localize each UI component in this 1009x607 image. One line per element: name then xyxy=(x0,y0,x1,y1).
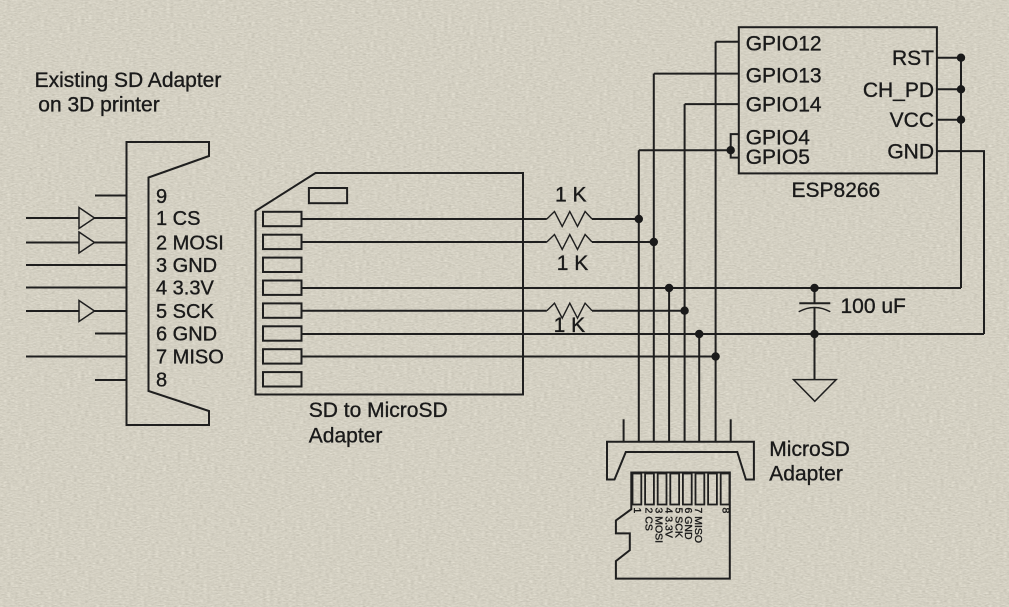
svg-text:8: 8 xyxy=(719,508,731,514)
svg-text:ESP8266: ESP8266 xyxy=(792,179,881,202)
svg-text:CH_PD: CH_PD xyxy=(863,79,934,102)
svg-text:SD to MicroSD: SD to MicroSD xyxy=(309,399,448,422)
svg-text:VCC: VCC xyxy=(890,109,934,132)
svg-text:1 K: 1 K xyxy=(555,184,587,207)
svg-text:5 SCK: 5 SCK xyxy=(156,301,214,323)
svg-text:7 MISO: 7 MISO xyxy=(156,347,224,369)
svg-text:1: 1 xyxy=(631,508,643,514)
svg-text:1 CS: 1 CS xyxy=(156,208,200,230)
svg-text:9: 9 xyxy=(156,186,167,208)
svg-text:3 MOSI: 3 MOSI xyxy=(652,508,664,544)
svg-text:Adapter: Adapter xyxy=(309,424,383,447)
svg-text:1 K: 1 K xyxy=(554,314,586,337)
svg-text:MicroSD: MicroSD xyxy=(769,438,850,461)
svg-text:1 K: 1 K xyxy=(557,252,589,275)
svg-text:Existing SD Adapter: Existing SD Adapter xyxy=(35,69,222,92)
svg-text:3 GND: 3 GND xyxy=(156,255,217,277)
svg-text:Adapter: Adapter xyxy=(769,463,843,486)
svg-text:6 GND: 6 GND xyxy=(156,324,217,346)
svg-text:2 MOSI: 2 MOSI xyxy=(156,233,224,255)
svg-text:GND: GND xyxy=(887,141,934,164)
svg-text:GPIO5: GPIO5 xyxy=(746,146,810,169)
svg-text:4 3.3V: 4 3.3V xyxy=(156,278,214,300)
svg-text:8: 8 xyxy=(156,370,167,392)
svg-text:on 3D printer: on 3D printer xyxy=(38,93,159,116)
svg-text:GPIO14: GPIO14 xyxy=(746,94,822,117)
svg-text:7 MISO: 7 MISO xyxy=(692,508,704,544)
svg-text:100 uF: 100 uF xyxy=(841,295,906,318)
svg-text:RST: RST xyxy=(892,47,934,70)
svg-text:GPIO12: GPIO12 xyxy=(746,32,822,55)
svg-text:GPIO13: GPIO13 xyxy=(746,65,822,88)
